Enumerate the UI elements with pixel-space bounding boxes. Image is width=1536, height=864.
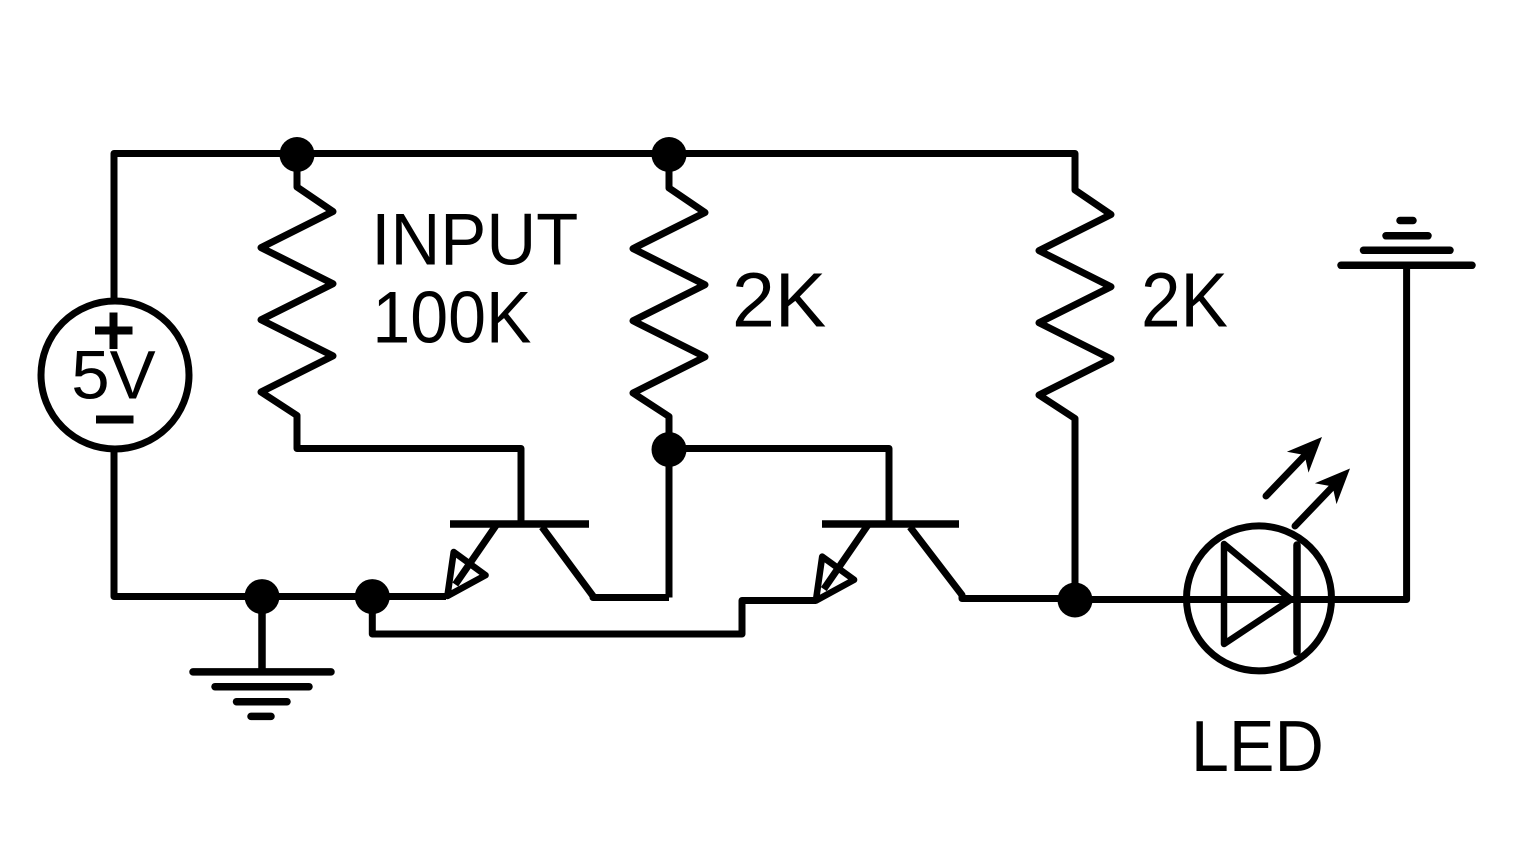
svg-text:INPUT: INPUT [371,199,578,280]
svg-text:2K: 2K [732,258,826,344]
svg-text:5V: 5V [71,337,155,414]
svg-text:2K: 2K [1141,258,1228,344]
svg-text:100K: 100K [372,278,531,359]
svg-text:LED: LED [1191,707,1324,787]
